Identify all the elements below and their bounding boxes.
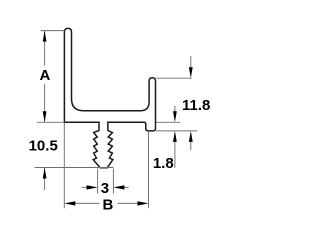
ext line top-left <box>41 30 65 32</box>
ext lines for 3 <box>97 169 99 194</box>
arrow A up <box>43 31 47 42</box>
ext line bottom-left <box>37 121 65 123</box>
arrow 11.8 top down <box>189 67 193 78</box>
arrow 1.8 top down <box>173 111 177 122</box>
arrow 3 right <box>113 185 124 189</box>
svg-text:A: A <box>39 67 50 84</box>
profile outline <box>64 28 155 167</box>
svg-text:B: B <box>102 197 113 214</box>
dim A shaft <box>44 31 46 66</box>
svg-text:1.8: 1.8 <box>153 155 174 172</box>
ext lines for B <box>63 122 65 208</box>
dim 10.5 lower shaft <box>44 168 46 191</box>
dim 3 tails <box>82 186 88 188</box>
arrow 10.5 up <box>43 168 47 179</box>
ext line right-low <box>156 130 197 132</box>
svg-text:3: 3 <box>101 180 109 197</box>
arrow 1.8 bottom up <box>173 131 177 142</box>
dim 11.8 shafts <box>190 56 192 68</box>
ext line tongue tip level <box>35 167 114 169</box>
arrow 3 left <box>87 185 98 189</box>
arrow A down <box>43 111 47 122</box>
dim B tails <box>75 202 100 204</box>
svg-text:11.8: 11.8 <box>182 97 210 114</box>
arrow 11.8 bottom up <box>189 131 193 142</box>
ext line right-mid <box>156 121 180 123</box>
arrow B right <box>138 201 149 205</box>
dim 1.8 shafts <box>174 106 176 112</box>
arrow B left <box>64 201 75 205</box>
ext line right-top <box>156 77 192 79</box>
svg-text:10.5: 10.5 <box>29 138 58 155</box>
